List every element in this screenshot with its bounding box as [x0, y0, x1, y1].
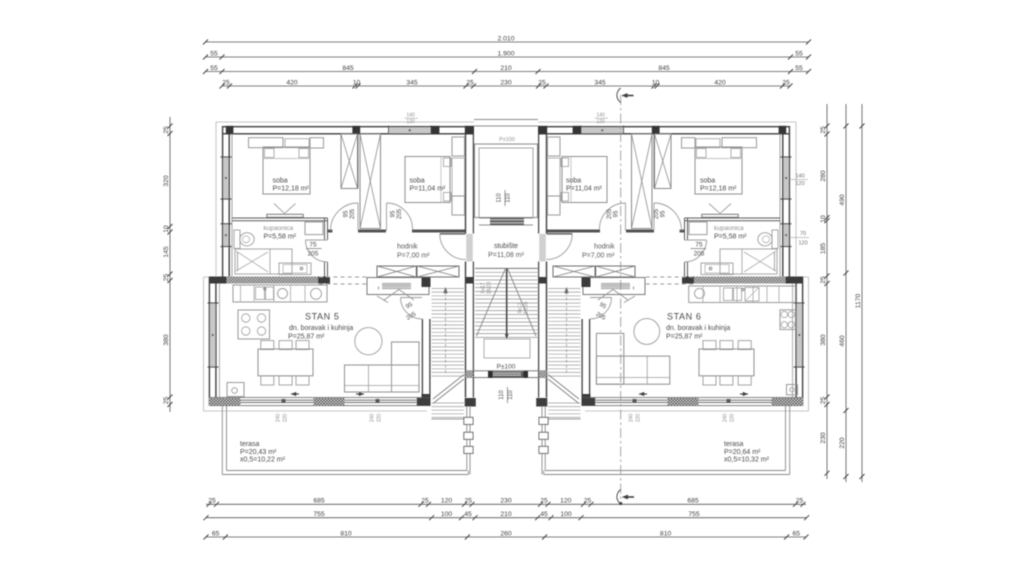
stubiste upper outline: [475, 144, 538, 218]
svg-text:120: 120: [597, 119, 606, 125]
rug circle: [355, 328, 382, 355]
kitchen sink: [256, 287, 265, 300]
terrace outline: [221, 406, 223, 475]
svg-text:terasa: terasa: [724, 441, 744, 448]
svg-text:25: 25: [163, 274, 170, 282]
svg-text:220: 220: [730, 414, 736, 423]
svg-text:120: 120: [407, 119, 416, 125]
right dimension column 25/280/10/185/25/380/25/230: [826, 104, 828, 479]
south wall piers hatched: [772, 398, 804, 406]
dimension row 25/685/25/120/25/230/25/120/25/685/25: [206, 503, 806, 505]
north wall columns: [779, 126, 787, 134]
shower: [235, 249, 292, 274]
svg-text:10: 10: [353, 79, 361, 86]
toilet: [772, 230, 778, 249]
kupaonica east wall: [687, 218, 689, 240]
stair lower treads: [548, 402, 581, 404]
svg-text:110: 110: [497, 193, 503, 203]
svg-text:45: 45: [540, 511, 548, 518]
south wall piers hatched: [209, 398, 241, 406]
headboard shelf right bedroom: [682, 138, 696, 148]
rug circle right: [634, 319, 660, 345]
svg-text:25: 25: [782, 79, 790, 86]
svg-text:205: 205: [654, 208, 660, 219]
svg-text:205: 205: [607, 208, 613, 219]
svg-text:P±100: P±100: [497, 363, 516, 370]
svg-text:25: 25: [540, 498, 548, 505]
section mark top: [617, 88, 621, 103]
svg-text:P=12,18 m²: P=12,18 m²: [700, 185, 737, 192]
svg-text:95: 95: [391, 210, 397, 217]
kitchen block below hodnik: [583, 278, 645, 295]
terrace pillars: [464, 417, 473, 424]
dimension row 55/1.900/55: [206, 56, 809, 58]
washbasin: [279, 263, 311, 275]
building offset outline: [538, 122, 809, 411]
stubiste west wall: [465, 134, 467, 234]
headboard shelf soba2: [548, 137, 561, 156]
door soba2 95/205: [625, 203, 627, 231]
dimension row 755/100/45/210/45/100/755: [206, 517, 807, 519]
wardrobe X left: [655, 134, 672, 189]
partition soba1-soba2: [357, 134, 359, 189]
north wall columns: [226, 126, 234, 134]
left unit STAN 5 geometry: [204, 122, 476, 475]
svg-text:380: 380: [163, 334, 170, 346]
svg-text:120: 120: [560, 498, 572, 505]
svg-text:810: 810: [340, 530, 352, 537]
bathroom cabinet: [689, 222, 707, 235]
svg-text:P=12,18 m²: P=12,18 m²: [273, 185, 310, 192]
TV mark right bedroom: [702, 214, 738, 217]
south wall frame dots: [727, 399, 731, 403]
open boundary dashes hodnik-kitchen: [645, 276, 693, 278]
svg-text:soba: soba: [566, 178, 581, 185]
svg-text:420: 420: [286, 79, 298, 86]
svg-text:220: 220: [839, 437, 846, 449]
window soba1 west: [223, 157, 228, 199]
hodnik wardrobe X boxes: [377, 266, 416, 277]
svg-text:345: 345: [594, 79, 606, 86]
svg-text:490: 490: [839, 194, 846, 206]
svg-text:220: 220: [636, 414, 642, 423]
left dimension column 25/320/10/145/25/380/25: [169, 117, 171, 412]
kitchen sink right: [724, 288, 733, 301]
dimension row total 2.010: [206, 41, 809, 43]
svg-text:205: 205: [350, 208, 356, 219]
kupaonica door 75/205: [685, 239, 707, 241]
svg-text:230: 230: [820, 432, 827, 444]
stair door 95/205: [401, 297, 423, 299]
stubiste south window P+-100: [465, 370, 547, 372]
svg-text:P=5,58 m²: P=5,58 m²: [264, 233, 297, 240]
svg-text:240: 240: [370, 414, 376, 423]
west wall inner face line: [779, 134, 781, 277]
svg-text:185: 185: [820, 243, 827, 255]
window soba1 west: [784, 157, 789, 199]
stubiste stair treads: [475, 268, 539, 270]
svg-text:25: 25: [820, 126, 827, 134]
bed soba2: [405, 157, 450, 203]
bed soba2: [562, 157, 607, 203]
building offset outline: [204, 122, 475, 411]
svg-text:P=20,43 m²: P=20,43 m²: [240, 449, 277, 456]
svg-text:hodnik: hodnik: [397, 244, 418, 251]
svg-text:STAN 5: STAN 5: [305, 312, 339, 322]
stubiste wall pier at hodnik: [466, 277, 473, 284]
window kupaonica west: [784, 224, 789, 247]
svg-text:P=7,00 m²: P=7,00 m²: [397, 253, 430, 260]
svg-text:55: 55: [210, 65, 218, 72]
svg-text:25: 25: [465, 498, 473, 505]
chairs bottom: [738, 376, 751, 385]
kitchen burner circle: [278, 289, 288, 299]
svg-text:205: 205: [397, 208, 403, 219]
terrace pillars: [539, 417, 548, 424]
headboard shelf soba1: [249, 138, 284, 148]
svg-text:110: 110: [506, 193, 512, 203]
bathroom cabinet: [305, 222, 323, 235]
kupaonica north wall: [685, 217, 781, 219]
sofa L-shape right: [596, 356, 669, 384]
svg-text:220: 220: [377, 414, 383, 423]
bed right bedroom: [695, 147, 742, 194]
svg-text:25: 25: [820, 397, 827, 405]
door soba1 95/205: [357, 203, 359, 231]
wardrobe X right tall: [632, 134, 653, 229]
svg-text:45: 45: [464, 511, 472, 518]
svg-text:stubište: stubište: [494, 243, 518, 250]
svg-text:260: 260: [500, 530, 512, 537]
svg-text:25: 25: [208, 498, 216, 505]
svg-text:845: 845: [342, 65, 354, 72]
dimension row 55/845/210/845/55: [206, 71, 809, 73]
svg-text:1.900: 1.900: [497, 50, 514, 57]
wardrobe X left: [341, 134, 358, 189]
kitchen stove right: [745, 288, 759, 302]
serving hatch V mark: [613, 290, 628, 301]
corner floor drain square right: [787, 385, 798, 395]
terrace outline: [789, 406, 791, 475]
svg-text:25: 25: [222, 79, 230, 86]
svg-text:95: 95: [614, 210, 620, 217]
stair channel wall: [421, 319, 423, 394]
svg-text:320: 320: [163, 175, 170, 187]
svg-text:25: 25: [421, 498, 429, 505]
svg-text:STAN 6: STAN 6: [667, 312, 701, 322]
svg-text:95: 95: [344, 210, 350, 217]
svg-text:75: 75: [309, 242, 317, 249]
svg-text:soba: soba: [273, 178, 288, 185]
svg-text:P=11,04 m²: P=11,04 m²: [566, 185, 603, 192]
kitchen counter right: [689, 286, 796, 303]
kitchen counter: [233, 285, 327, 302]
window soba2 north: [389, 127, 432, 133]
kupaonica south wall hatched: [209, 277, 330, 284]
svg-text:P=5,58 m²: P=5,58 m²: [714, 233, 747, 240]
stair channel wall: [589, 319, 591, 394]
svg-text:P=25,87 m²: P=25,87 m²: [666, 334, 703, 341]
unit internal stair treads: [548, 288, 581, 290]
sofa L-shape: [345, 365, 420, 392]
svg-text:P=20,64 m²: P=20,64 m²: [724, 449, 761, 456]
svg-text:65: 65: [212, 530, 220, 537]
svg-text:205: 205: [308, 251, 319, 258]
section mark bottom: [617, 490, 621, 505]
window soba2 north: [581, 127, 624, 133]
svg-text:755: 755: [313, 511, 325, 518]
door soba2 95/205: [386, 203, 388, 231]
svg-text:kupaonica: kupaonica: [264, 225, 294, 232]
stubiste west wall: [546, 134, 548, 234]
svg-text:x0,5=10,22 m²: x0,5=10,22 m²: [240, 457, 286, 464]
svg-text:P±100: P±100: [499, 137, 515, 143]
north wall: [222, 126, 474, 128]
svg-text:55: 55: [795, 65, 803, 72]
svg-text:110: 110: [499, 390, 505, 400]
unit internal stair treads: [432, 288, 465, 290]
sliding door arrows left unit: [291, 393, 299, 395]
svg-text:120: 120: [799, 241, 808, 247]
west wall lower (living): [802, 277, 804, 406]
hodnik north wall with bedroom door openings: [328, 230, 333, 233]
svg-text:110: 110: [508, 390, 514, 400]
kitchen burner circle right: [695, 288, 705, 298]
corner floor drain square: [227, 383, 244, 397]
svg-text:140: 140: [796, 174, 805, 180]
wardrobe X right tall: [360, 134, 381, 229]
svg-text:soba: soba: [410, 178, 425, 185]
stair wall piers: [422, 278, 431, 288]
svg-text:18/28: 18/28: [524, 302, 530, 315]
hob 4 burners right: [780, 310, 796, 330]
stubiste stair diagonals: [477, 269, 506, 336]
dining table: [699, 349, 754, 376]
window kupaonica west: [223, 224, 228, 247]
dimension row room widths 25/420/10/345/25/230/25/345/10/420/25: [222, 85, 790, 87]
TV mark soba1: [267, 214, 303, 217]
svg-text:10: 10: [820, 215, 827, 223]
sliding door arrows right unit: [639, 393, 647, 395]
kitchen block below hodnik: [367, 278, 429, 295]
hob 4 burners: [238, 310, 270, 339]
headboard shelf soba2: [452, 137, 465, 156]
right unit STAN 6 geometry (mirrored): [536, 122, 808, 475]
svg-text:145: 145: [163, 246, 170, 258]
svg-text:1170: 1170: [855, 293, 862, 308]
stubiste stair center divider: [506, 269, 508, 338]
west wall upper: [788, 126, 790, 284]
hodnik wardrobe X boxes: [596, 266, 635, 277]
entry door to hodnik: [466, 234, 473, 262]
stair lower treads: [432, 402, 465, 404]
right dimension column total 1170: [861, 104, 863, 482]
svg-text:2.010: 2.010: [497, 35, 514, 42]
window living west: [797, 303, 802, 367]
stair break diagonals: [548, 375, 579, 400]
svg-text:140: 140: [597, 113, 606, 119]
chairs bottom: [261, 376, 274, 385]
kupaonica door 75/205: [306, 239, 328, 241]
chairs top: [261, 341, 274, 350]
svg-text:hodnik: hodnik: [594, 244, 615, 251]
stubiste recessed entry roof lines: [474, 119, 538, 121]
svg-text:25: 25: [163, 397, 170, 405]
partition soba1-soba2: [653, 134, 655, 189]
stair break diagonals: [433, 375, 464, 400]
right dimension column 490/460/220: [845, 104, 847, 482]
svg-text:25: 25: [538, 79, 546, 86]
shower: [720, 249, 777, 274]
south wall glazing: [583, 397, 804, 399]
svg-text:685: 685: [687, 498, 699, 505]
south wall glazing: [209, 397, 430, 399]
svg-text:25: 25: [820, 276, 827, 284]
svg-text:10: 10: [652, 79, 660, 86]
svg-text:95: 95: [661, 210, 667, 217]
window living west: [210, 303, 215, 367]
chairs top: [738, 341, 751, 350]
svg-text:210: 210: [500, 511, 512, 518]
svg-text:230: 230: [500, 79, 512, 86]
svg-text:55: 55: [795, 50, 803, 57]
svg-text:P=11,08 m²: P=11,08 m²: [488, 252, 525, 259]
svg-text:240: 240: [276, 414, 282, 423]
svg-text:kupaonica: kupaonica: [714, 225, 744, 232]
svg-text:P=11,04 m²: P=11,04 m²: [410, 185, 447, 192]
bed soba1: [263, 147, 310, 194]
svg-text:25: 25: [163, 126, 170, 134]
svg-text:210: 210: [500, 65, 512, 72]
svg-text:420: 420: [714, 79, 726, 86]
dimension row 65/810/260/810/65: [206, 536, 806, 538]
entry door to hodnik: [539, 234, 546, 262]
south wall frame dots: [282, 399, 286, 403]
stair direction dashed line with arrow: [566, 292, 568, 374]
hodnik north wall with bedroom door openings: [680, 230, 685, 233]
stair direction dashed line with arrow: [445, 292, 447, 374]
svg-text:55: 55: [210, 50, 218, 57]
door soba1 95/205: [653, 203, 655, 231]
svg-text:100: 100: [560, 511, 572, 518]
stubiste north window: [490, 218, 524, 225]
svg-text:25: 25: [584, 498, 592, 505]
svg-text:205: 205: [694, 251, 705, 258]
open boundary dashes hodnik-kitchen: [319, 276, 367, 278]
svg-text:280: 280: [820, 170, 827, 182]
svg-text:P=25,87 m²: P=25,87 m²: [288, 334, 325, 341]
svg-text:65: 65: [793, 530, 801, 537]
stair wall piers: [582, 278, 591, 288]
serving hatch V mark: [384, 290, 399, 301]
svg-text:220: 220: [283, 414, 289, 423]
svg-text:18/28: 18/28: [487, 282, 493, 295]
dining table: [258, 349, 313, 376]
svg-text:120: 120: [796, 181, 805, 187]
section line 1-1: [620, 95, 622, 503]
washbasin: [701, 263, 733, 275]
west wall upper: [222, 126, 224, 284]
stubiste south window hatched piers: [466, 371, 473, 378]
svg-text:dn. boravak i kuhinja: dn. boravak i kuhinja: [666, 325, 730, 332]
west wall inner face line: [231, 134, 233, 277]
svg-text:terasa: terasa: [240, 441, 260, 448]
svg-text:soba: soba: [700, 178, 715, 185]
svg-text:240: 240: [723, 414, 729, 423]
svg-text:755: 755: [688, 511, 700, 518]
stubiste wall pier at hodnik: [539, 277, 546, 284]
svg-text:x0,5=10,32 m²: x0,5=10,32 m²: [724, 457, 770, 464]
kupaonica south wall hatched: [682, 277, 803, 284]
svg-text:dn. boravak i kuhinja: dn. boravak i kuhinja: [289, 325, 353, 332]
svg-text:P=7,00 m²: P=7,00 m²: [582, 253, 615, 260]
svg-text:100: 100: [441, 511, 453, 518]
svg-text:10: 10: [163, 225, 170, 233]
kupaonica east wall: [324, 218, 326, 240]
svg-text:845: 845: [658, 65, 670, 72]
svg-text:345: 345: [406, 79, 418, 86]
svg-text:240: 240: [629, 414, 635, 423]
kupaonica north wall: [232, 217, 328, 219]
svg-text:380: 380: [820, 334, 827, 346]
svg-text:25: 25: [796, 498, 804, 505]
stubiste landing: [484, 339, 530, 358]
stubiste stair top boundary: [475, 267, 539, 269]
svg-text:230: 230: [500, 498, 512, 505]
svg-text:25: 25: [466, 79, 474, 86]
west wall lower (living): [208, 277, 210, 406]
svg-text:140: 140: [407, 113, 416, 119]
north wall: [538, 126, 790, 128]
svg-text:70: 70: [800, 231, 806, 237]
toilet: [234, 230, 240, 249]
svg-text:460: 460: [839, 335, 846, 347]
stair door 95/205: [590, 297, 612, 299]
svg-text:810: 810: [660, 530, 672, 537]
svg-text:685: 685: [313, 498, 325, 505]
svg-text:75: 75: [695, 242, 703, 249]
svg-text:120: 120: [441, 498, 453, 505]
